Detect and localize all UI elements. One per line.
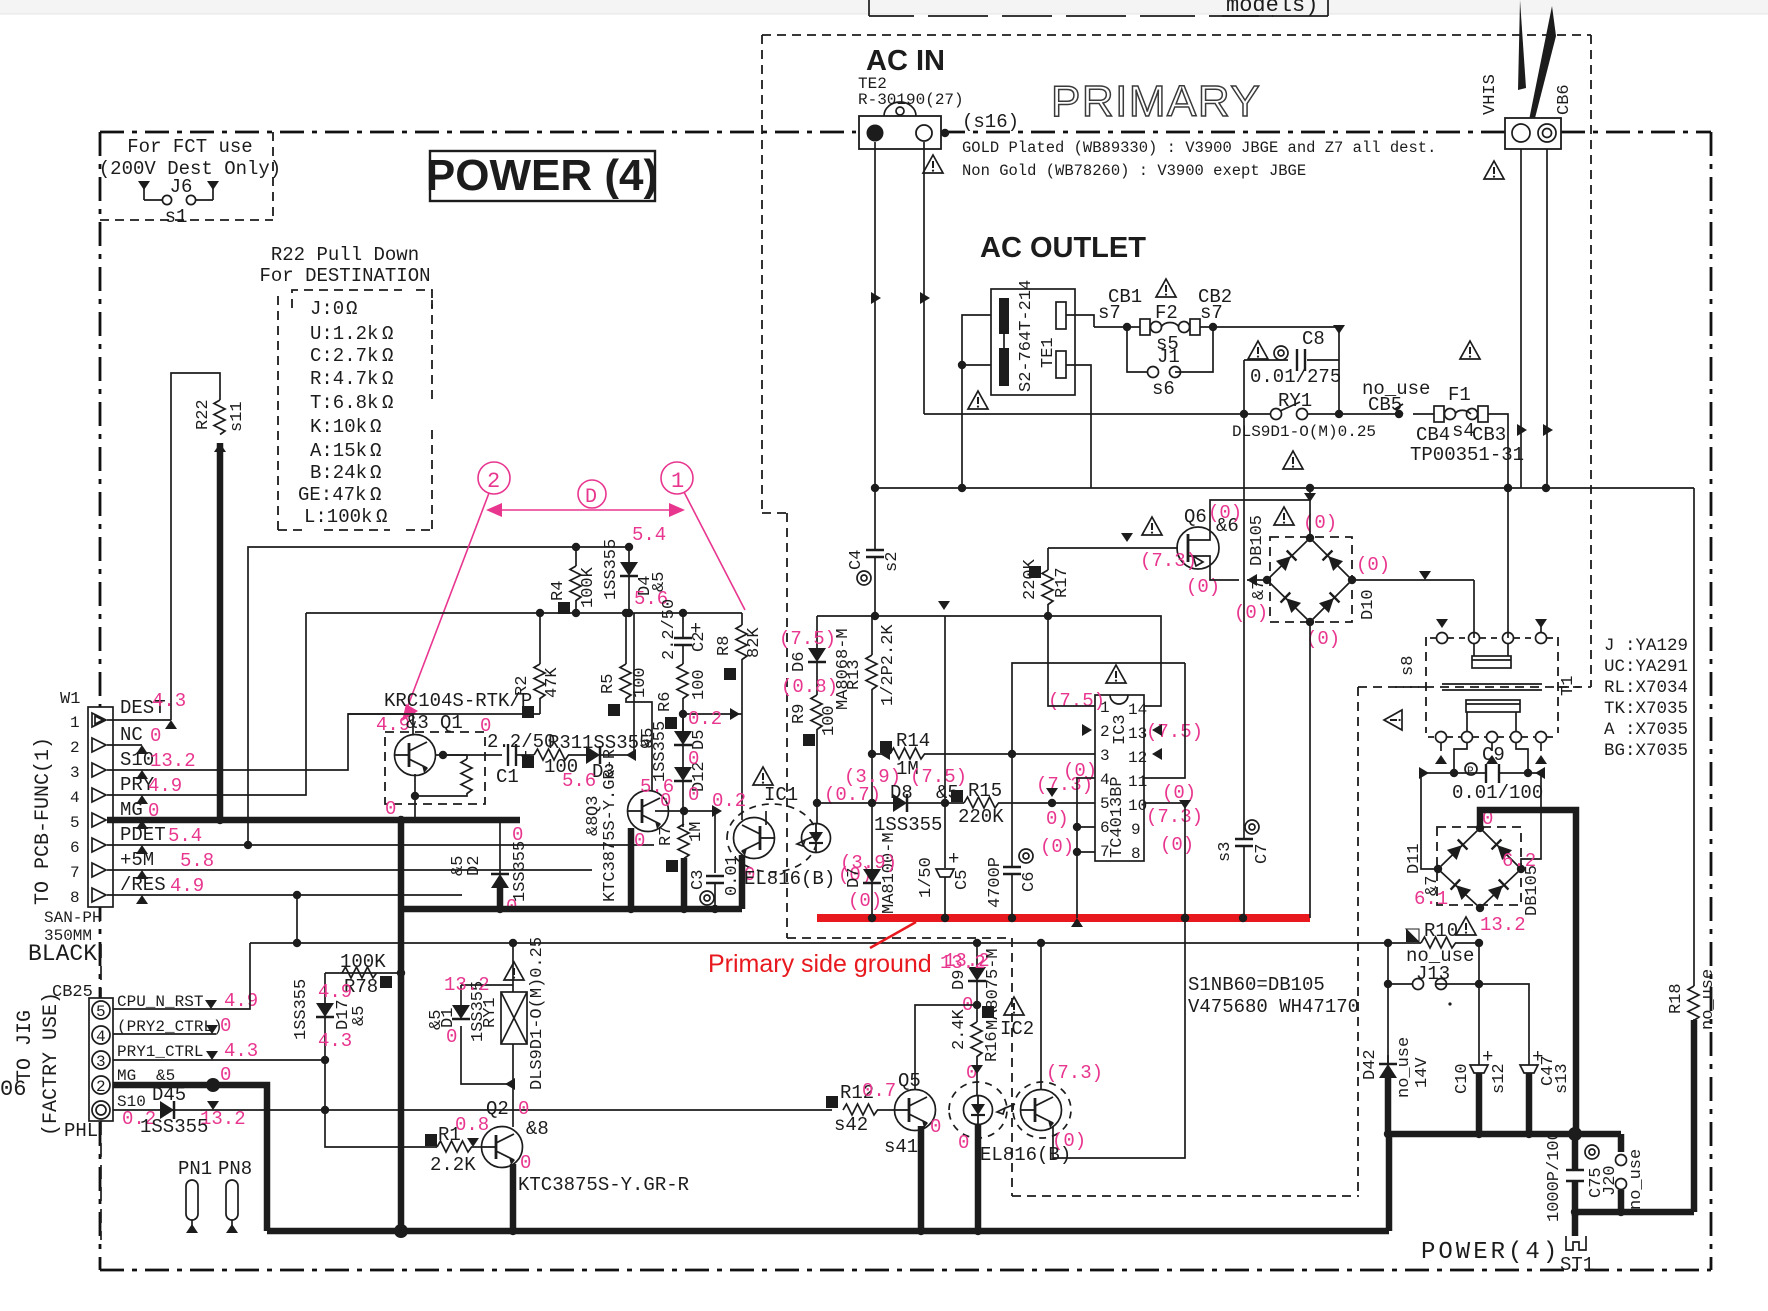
dashed box "For FCT use" with jumper J6 [99,132,281,228]
svg-text:GE:47k: GE:47k [298,484,366,506]
svg-text:(0): (0) [1303,512,1337,534]
svg-text:2.4K: 2.4K [950,1008,969,1050]
wire nets from CB25 pins [113,943,832,1231]
resistor R78 100K [325,951,405,998]
capacitor C4 (s2) [847,488,902,616]
svg-text:5.4: 5.4 [168,825,202,847]
svg-text:S2-764T-214: S2-764T-214 [1017,280,1036,392]
svg-text:0: 0 [518,1098,529,1120]
capacitor C8 0.01/275 [1244,325,1345,414]
resistor R8 82K [715,613,764,714]
diode D4 1SS355 [628,547,630,562]
resistor R18 no_use [1667,488,1718,1212]
resistor internal to Q1 [436,754,467,756]
svg-text:V475680 WH47170: V475680 WH47170 [1188,996,1359,1018]
svg-text:Primary side ground: Primary side ground [708,950,932,978]
wire PRY2_CTRL stub [113,1033,216,1035]
svg-text:1000P/100: 1000P/100 [1545,1130,1564,1222]
svg-text:D2: D2 [465,856,484,876]
T1 dashed enclosure [1426,637,1558,733]
svg-text:PRIMARY: PRIMARY [1051,77,1261,126]
svg-text:1: 1 [70,714,80,732]
svg-text:EL816(B): EL816(B) [744,868,835,890]
svg-text:0.2: 0.2 [712,790,746,812]
svg-text:F2: F2 [1155,302,1178,324]
svg-text:NC: NC [120,724,143,746]
resistor R2 47K [513,613,562,718]
svg-text:BG:X7035: BG:X7035 [1604,741,1688,761]
svg-text:AC OUTLET: AC OUTLET [980,232,1146,264]
svg-text:2: 2 [70,739,80,757]
svg-text:IC3: IC3 [1111,714,1130,745]
capacitor C75 1000P/100 [1545,1130,1606,1222]
svg-text:6.1: 6.1 [1414,888,1448,910]
svg-text:KTC3875S-Y.GR-R: KTC3875S-Y.GR-R [518,1174,689,1196]
wire nets from W1 pins [107,373,654,1231]
svg-text:PN1: PN1 [178,1158,212,1180]
svg-text:C5: C5 [953,870,972,890]
svg-text:(s16): (s16) [962,111,1019,133]
svg-text:220K: 220K [958,806,1004,828]
svg-text:TK:X7035: TK:X7035 [1604,699,1688,719]
svg-text:CB25: CB25 [52,983,93,1002]
svg-text:U:1.2k: U:1.2k [310,323,378,345]
wire Q1 base rail [348,713,540,715]
connector CB25 (PHL) [89,944,258,1240]
svg-text:&5: &5 [639,728,658,748]
svg-text:100: 100 [631,667,650,698]
svg-text:(7.5): (7.5) [779,628,836,650]
capacitor C6 4700P [986,754,1039,918]
svg-text:models): models) [1226,0,1318,18]
svg-text:100: 100 [690,669,709,700]
svg-text:R14: R14 [896,730,930,752]
svg-text:D6: D6 [790,652,809,672]
svg-text:3: 3 [70,764,80,782]
svg-text:s41: s41 [884,1136,918,1158]
svg-text:10: 10 [1128,797,1147,815]
optocoupler IC2 EL816(B) [949,914,1189,1231]
svg-text:J20: J20 [1601,1165,1620,1196]
resistor R17 220K [1021,533,1178,616]
svg-text:2: 2 [1100,723,1110,741]
svg-text:PRY1_CTRL: PRY1_CTRL [117,1043,203,1061]
note list R22 Pull Down For DESTINATION [259,244,432,530]
resistor R10 no_use [1384,917,1483,967]
diode D9 MA8075-M and resistor R16 2.4K [976,943,978,967]
svg-text:Ω: Ω [370,462,381,484]
svg-text:1SS355: 1SS355 [602,539,621,600]
svg-text:5.8: 5.8 [180,850,214,872]
svg-text:J6: J6 [170,176,193,198]
svg-text:Q5: Q5 [898,1070,921,1092]
svg-text:2: 2 [487,469,500,494]
svg-text:D8: D8 [890,782,913,804]
resistor R31 100 [522,732,586,778]
svg-text:s2: s2 [883,552,902,572]
resistor R4 100K [575,547,577,566]
svg-text:s11: s11 [228,401,247,432]
svg-text:5.4: 5.4 [632,524,666,546]
svg-text:KTC3875S-Y.GR-R: KTC3875S-Y.GR-R [601,749,620,902]
bridge rectifier D10 DB105 [1234,488,1390,650]
svg-text:R8: R8 [715,636,734,656]
capacitor C47 (s13) [1520,1046,1572,1134]
resistor R22 (s11) [214,400,225,435]
diode D2 1SS355 [449,820,530,918]
svg-text:A :X7035: A :X7035 [1604,720,1688,740]
capacitor C2 2.2/50 and resistor R6 100 [656,599,709,731]
svg-text:DLS9D1-O(M)0.25: DLS9D1-O(M)0.25 [1232,423,1376,441]
svg-text:8: 8 [1131,845,1141,863]
svg-text:3: 3 [1100,747,1110,765]
svg-text:C1: C1 [496,766,519,788]
svg-text:EL816(B): EL816(B) [980,1144,1071,1166]
svg-text:D5: D5 [690,730,709,750]
svg-text:6: 6 [70,839,80,857]
AC IN connector TE2 [859,116,941,149]
ground Primary side ground (red bus) [708,914,1310,978]
svg-text:+: + [948,848,959,870]
svg-text:C:2.7k: C:2.7k [310,345,378,367]
svg-text:PHL: PHL [64,1120,98,1142]
wire control rail [817,616,1161,663]
svg-text:R4: R4 [549,581,568,601]
title box POWER (4) [426,151,658,201]
svg-text:L:100k: L:100k [304,506,372,528]
svg-text:R:4.7k: R:4.7k [310,368,378,390]
svg-text:PN8: PN8 [218,1158,252,1180]
svg-text:C9: C9 [1482,744,1505,766]
svg-text:14: 14 [1128,701,1147,719]
svg-text:DB105: DB105 [1523,865,1542,916]
svg-text:DB105: DB105 [1248,515,1267,566]
svg-text:RL:X7034: RL:X7034 [1604,678,1688,698]
transistor Q3 KTC3875S-Y.GR-R [584,749,674,909]
primary pins [1437,633,1448,644]
svg-text:(0): (0) [1234,602,1268,624]
svg-text:220K: 220K [1021,558,1040,600]
svg-text:TO JIG: TO JIG [14,1010,37,1082]
svg-text:0.8: 0.8 [455,1114,489,1136]
svg-text:s12: s12 [1490,1063,1509,1094]
svg-text:POWER(4): POWER(4) [1421,1239,1560,1266]
svg-text:(0): (0) [1162,782,1196,804]
bridge rectifier D11 DB105 [1405,808,1542,936]
svg-text:(7.3): (7.3) [1146,806,1203,828]
svg-text:4.9: 4.9 [318,981,352,1003]
svg-text:TC4013BP: TC4013BP [1108,776,1127,858]
callouts circled 2, D, 1 with arrows [402,462,745,721]
wire S10 net with diode D45 [113,1109,832,1111]
wires from CB6 pins [1520,149,1522,488]
svg-text:4.9: 4.9 [148,775,182,797]
svg-text:R5: R5 [599,674,618,694]
svg-text:11: 11 [1128,773,1147,791]
svg-text:6.2: 6.2 [1502,850,1536,872]
svg-text:R7: R7 [657,826,676,846]
svg-text:no_use: no_use [1699,969,1718,1030]
svg-text:47K: 47K [543,667,562,698]
svg-text:4.3: 4.3 [318,1030,352,1052]
connector CB6 (VHIS) [1481,0,1574,179]
svg-text:(3.9): (3.9) [840,852,897,874]
svg-text:Ω: Ω [376,506,387,528]
svg-text:1SS355: 1SS355 [292,979,311,1040]
svg-text:J1: J1 [1157,346,1180,368]
svg-text:Ω: Ω [382,323,393,345]
diode D8 1SS355 and resistor R15 220K [817,754,1095,836]
svg-text:4.3: 4.3 [224,1040,258,1062]
svg-text:CB3: CB3 [1472,424,1506,446]
svg-text:K:10k: K:10k [310,416,367,438]
svg-text:BLACK: BLACK [28,941,97,967]
svg-text:13.2: 13.2 [1480,914,1526,936]
svg-text:s7: s7 [1098,302,1121,324]
svg-text:R9: R9 [790,704,809,724]
svg-text:C2: C2 [690,632,709,652]
svg-text:CB4: CB4 [1416,424,1450,446]
svg-text:s6: s6 [1152,378,1175,400]
svg-text:&7: &7 [1250,580,1269,600]
svg-text:(FACTRY USE): (FACTRY USE) [40,992,63,1136]
svg-text:0: 0 [958,1132,969,1154]
svg-text:R6: R6 [656,692,675,712]
svg-text:P: P [1467,766,1474,778]
svg-text:12: 12 [1128,749,1147,767]
wire primary ground bus (thick) [401,906,742,913]
svg-text:4: 4 [70,789,80,807]
svg-text:100K: 100K [579,566,598,608]
wire secondary bus (thick) [1388,810,1694,1236]
svg-text:W1: W1 [60,690,80,709]
svg-text:1M: 1M [687,822,706,842]
svg-text:1SS355: 1SS355 [140,1116,208,1138]
svg-text:R13: R13 [845,659,864,690]
optocoupler IC1 EL816(B) [727,767,881,909]
svg-text:VHIS: VHIS [1481,74,1500,115]
svg-text:C8: C8 [1302,328,1325,350]
svg-text:Q6: Q6 [1184,506,1207,528]
wire rail with resistor R4 and diode D4 [549,524,669,614]
svg-text:2: 2 [96,1078,106,1096]
svg-text:R10: R10 [1424,920,1458,942]
transistor Q5 with resistor R12 (s42) [826,1005,977,1231]
secondary pins [1436,732,1447,743]
resistor R1 2.2K and transistor Q2 KTC3875S [425,1084,689,1231]
svg-text:UC:YA291: UC:YA291 [1604,657,1688,677]
svg-text:Ω: Ω [370,416,381,438]
svg-text:0.01/100: 0.01/100 [1452,782,1543,804]
svg-text:POWER (4): POWER (4) [426,151,658,200]
svg-text:R22: R22 [194,399,213,430]
svg-text:(0): (0) [1356,554,1390,576]
svg-text:Q2: Q2 [486,1098,509,1120]
wire MG bus (thick) [107,817,520,824]
svg-text:1/50: 1/50 [917,857,936,898]
frame border (dash-dot) [100,132,1711,1270]
svg-text:1/2P2.2K: 1/2P2.2K [879,624,898,706]
svg-text:s1: s1 [165,206,188,228]
connector TE2 (AC IN) [858,45,1019,173]
wire DEST net [107,719,171,721]
wire D10 to primary ground [1309,622,1311,918]
svg-text:4: 4 [96,1028,106,1046]
svg-text:0: 0 [446,1026,457,1048]
svg-text:14V: 14V [1413,1057,1432,1088]
svg-text:GOLD Plated (WB89330) : V3900: GOLD Plated (WB89330) : V3900 JBGE and Z… [962,139,1436,157]
svg-text:s13: s13 [1553,1063,1572,1094]
svg-text:0: 0 [220,1015,231,1037]
connector W1 [70,690,214,907]
capacitor C1 2.2/50 [487,731,555,788]
svg-text:(7.5): (7.5) [1048,690,1105,712]
svg-text:C4: C4 [847,550,866,570]
svg-text:D42: D42 [1361,1049,1380,1080]
wire CPU_N_RST net [113,943,250,1009]
svg-text:1: 1 [671,469,684,494]
svg-text:13.2: 13.2 [150,750,196,772]
terminal ST1 [1560,1236,1594,1276]
svg-text:ST1: ST1 [1560,1254,1594,1276]
relay contact RY1 [924,390,1376,469]
svg-text:D11: D11 [1405,843,1424,874]
svg-text:Ω: Ω [370,440,381,462]
diode D42 no_use 14V [1361,1037,1432,1138]
svg-text:Ω: Ω [346,298,357,320]
svg-text:(7.3): (7.3) [1046,1062,1103,1084]
connector TE1 S2-764T-214 (AC OUTLET) [958,280,1094,488]
wire +5M net [107,869,592,871]
svg-text:&8: &8 [526,1118,549,1140]
jumper J1 (s6) [1127,327,1213,400]
svg-text:(0.8): (0.8) [781,676,838,698]
svg-text:R17: R17 [1053,567,1072,598]
svg-text:100: 100 [820,705,839,736]
svg-text:13.2: 13.2 [444,974,490,996]
resistor R13 1/2P2.2K [845,616,898,754]
wire AC rail [875,487,1694,489]
wire PRY1_CTRL net [113,1059,324,1061]
diode D17 1SS355 [292,973,437,1147]
diodes D5 D12 1SS355 [639,708,742,827]
wires from TE2 AC IN pins [871,142,930,488]
svg-text:0: 0 [385,798,396,820]
svg-text:RY1: RY1 [481,997,500,1028]
svg-text:D1: D1 [439,1008,458,1028]
svg-text:CB6: CB6 [1555,84,1574,115]
svg-text:&5: &5 [350,1006,369,1026]
svg-text:Ω: Ω [382,345,393,367]
svg-text:Non Gold (WB78260) : V3900: Non Gold (WB78260) : V3900 exept JBGE [962,162,1306,180]
svg-text:0: 0 [634,830,645,852]
capacitor C3 0.01 [689,811,742,909]
svg-text:IC2: IC2 [1000,1018,1034,1040]
svg-text:3: 3 [96,1053,106,1071]
svg-text:100K: 100K [340,951,386,973]
svg-text:4.9: 4.9 [170,875,204,897]
svg-text:5: 5 [96,1003,106,1021]
fuse F2 (s5) with CB1 CB2 [1094,279,1339,355]
svg-text:no_use: no_use [1627,1149,1646,1210]
svg-text:C10: C10 [1453,1063,1472,1094]
svg-text:R15: R15 [968,780,1002,802]
svg-text:(0): (0) [1306,628,1340,650]
svg-text:82K: 82K [745,627,764,658]
wire PDET net and top rail [107,547,654,845]
svg-text:F1: F1 [1448,384,1471,406]
svg-text:2.2/50: 2.2/50 [660,599,679,660]
wire 4.9V rail [250,942,1388,944]
svg-text:D45: D45 [152,1084,186,1106]
svg-text:Ω: Ω [382,368,393,390]
svg-text:J :YA129: J :YA129 [1604,636,1688,656]
primary side dashed boundary [762,35,1591,1196]
note transformer model list [1604,636,1688,761]
svg-text:J13: J13 [1416,963,1450,985]
capacitor C10 (s12) [1453,1046,1509,1134]
resistor R5 100 [599,609,652,791]
resistor R14 1M [868,730,1016,780]
svg-text:0: 0 [150,725,161,747]
core [1442,683,1542,685]
jumper J13 [1384,943,1529,1065]
svg-text:Ω: Ω [370,484,381,506]
svg-text:For DESTINATION: For DESTINATION [259,265,430,287]
svg-text:2.2K: 2.2K [430,1154,476,1176]
svg-text:IC1: IC1 [764,784,798,806]
IC3 TC4013BP [1012,616,1203,918]
IC3 wires [1012,663,1185,778]
svg-text:0: 0 [688,784,699,806]
svg-text:T1: T1 [1559,676,1578,696]
note box (cut off) "models)" [869,0,1328,18]
svg-text:4700P: 4700P [986,857,1005,908]
fuse F1 (s4) with CB4 CB3 CB5 [1339,341,1524,492]
diode D7 MA8100-M [840,803,899,918]
svg-text:0: 0 [930,1116,941,1138]
svg-text:0: 0 [660,790,671,812]
svg-text:(0): (0) [848,890,882,912]
svg-text:S1NB60=DB105: S1NB60=DB105 [1188,974,1325,996]
svg-text:C3: C3 [689,870,708,890]
wire /RES net [107,894,462,896]
svg-text:8: 8 [70,889,80,907]
svg-text:R22 Pull Down: R22 Pull Down [271,244,419,266]
svg-text:B:24k: B:24k [310,462,367,484]
svg-text:Q1: Q1 [440,712,463,734]
svg-text:T:6.8k: T:6.8k [310,392,378,414]
svg-text:s8: s8 [1399,656,1418,676]
svg-text:5: 5 [70,814,80,832]
svg-text:0: 0 [512,824,523,846]
svg-text:C6: C6 [1020,872,1039,892]
wire bottom ground bus (thick) [267,1228,1389,1235]
wire NC stub [107,744,142,746]
svg-text:R18: R18 [1667,983,1686,1014]
wire Q3 base rail [655,810,715,812]
wire MG net (thick) [113,1085,267,1231]
svg-text:no_use: no_use [1395,1037,1414,1098]
diode D3 1SS355 [562,613,650,792]
svg-text:(0): (0) [1040,836,1074,858]
svg-text:Ω: Ω [382,392,393,414]
svg-text:TP00351-31: TP00351-31 [1410,444,1524,466]
svg-text:TO PCB-FUNC(1): TO PCB-FUNC(1) [32,737,55,905]
svg-text:(0): (0) [1208,502,1242,524]
svg-text:0.01/275: 0.01/275 [1250,366,1341,388]
jumper J20 no_use [1601,1149,1646,1210]
